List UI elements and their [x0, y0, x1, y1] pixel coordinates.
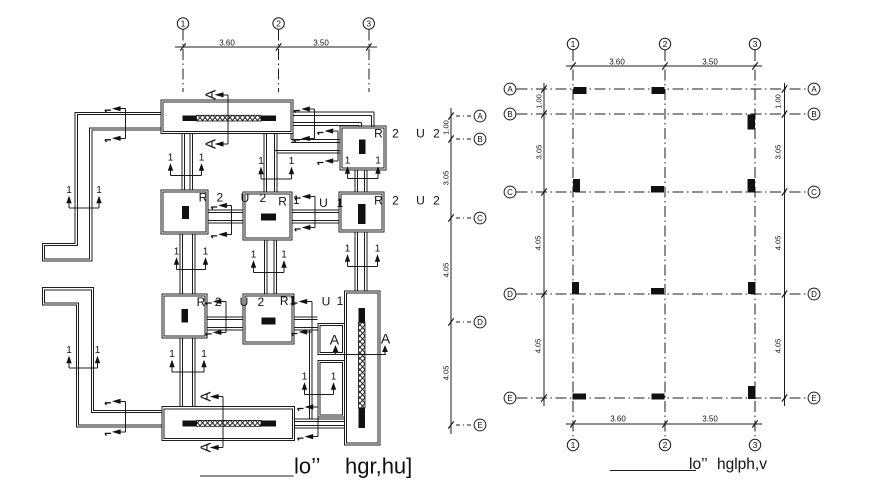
svg-text:D: D	[811, 290, 817, 299]
connector to bubble B (left plan)	[456, 138, 473, 140]
svg-text:D: D	[507, 290, 513, 299]
svg-text:1: 1	[375, 243, 381, 254]
tall strip footing bar with hatch	[359, 308, 366, 323]
svg-text:4.05: 4.05	[442, 263, 451, 278]
grid line D dash-dot (right plan)	[517, 293, 808, 295]
svg-text:1: 1	[258, 156, 264, 167]
connector to bubble D (left plan)	[456, 321, 473, 323]
wall H5 row D between left and center footings	[207, 317, 243, 330]
column in footing row B col 3	[359, 140, 366, 155]
column mark 3-C	[748, 179, 756, 193]
wall H6 row D center footing to A-box	[294, 317, 318, 330]
column in footing row C col 2	[261, 214, 276, 221]
wall H2 strip right edge to top-right footing	[275, 134, 340, 154]
footing R2 row C column 3 (double outline)	[339, 192, 384, 232]
svg-text:2: 2	[663, 39, 668, 49]
section cut 1-1 wall H6	[292, 299, 313, 336]
svg-text:E: E	[507, 394, 512, 403]
strip footing top reinforcement bar with hatch	[183, 115, 197, 121]
row bubble B (left plan)	[474, 133, 486, 145]
svg-text:A: A	[507, 85, 513, 94]
svg-text:3.50: 3.50	[313, 39, 329, 48]
footing R2 row C column 1 (double outline)	[161, 190, 208, 234]
svg-text:2: 2	[433, 127, 440, 141]
wall V8 thin wall left of A-boxes	[310, 330, 313, 419]
svg-text:1: 1	[66, 185, 72, 196]
svg-text:A: A	[811, 85, 817, 94]
svg-text:1: 1	[201, 349, 207, 360]
svg-text:A: A	[381, 331, 391, 347]
svg-text:R: R	[374, 127, 383, 141]
svg-text:1: 1	[96, 185, 102, 196]
svg-text:2: 2	[215, 295, 222, 309]
row bubble C left (right plan)	[504, 186, 516, 198]
svg-text:R: R	[278, 195, 287, 209]
svg-text:3.60: 3.60	[219, 39, 235, 48]
svg-text:2: 2	[217, 191, 224, 205]
row bubble C right (right plan)	[808, 186, 820, 198]
svg-text:2: 2	[663, 440, 668, 450]
grid line 2 dash-dot (left plan)	[278, 30, 280, 92]
wall V7 row D left column to bottom strip footing	[180, 338, 195, 407]
svg-text:1: 1	[95, 345, 101, 356]
svg-text:U: U	[322, 295, 331, 309]
svg-text:3: 3	[366, 19, 371, 29]
svg-text:1: 1	[345, 243, 351, 254]
svg-text:3.60: 3.60	[610, 415, 626, 424]
svg-text:2: 2	[392, 194, 399, 208]
footing R2 row B column 3 (double outline)	[340, 126, 386, 170]
wall V1 below top strip to footing R2 row C	[182, 134, 193, 191]
svg-text:1: 1	[281, 249, 287, 260]
grid line 3 dash-dot (right plan)	[754, 50, 756, 439]
column mark 2-E	[652, 394, 665, 400]
dim tick row C (left plan)	[448, 214, 453, 221]
connector to bubble E (left plan)	[456, 424, 473, 426]
svg-text:D: D	[477, 318, 483, 327]
grid bubble 3 top (right plan)	[749, 38, 760, 49]
grid bubble 2 (left plan)	[273, 18, 284, 29]
column mark 2-D	[651, 288, 664, 295]
top dimension line (left plan)	[175, 46, 377, 48]
section cut 1-1 wall H2	[318, 128, 339, 164]
section cut 1-1 through one-box wall	[302, 371, 337, 394]
svg-text:lo’’: lo’’	[294, 454, 321, 479]
section cut 1-1 upper left wall	[66, 185, 102, 208]
grid bubble 2 bottom (right plan)	[659, 439, 670, 450]
svg-text:1.00: 1.00	[535, 94, 544, 109]
grid bubble 2 top (right plan)	[659, 38, 670, 49]
svg-text:3: 3	[753, 39, 758, 49]
column in footing row D col 2	[262, 318, 276, 325]
svg-text:1: 1	[203, 246, 209, 257]
svg-text:3.50: 3.50	[702, 415, 718, 424]
wall V4 footing row C right to tall strip footing	[355, 232, 367, 291]
section cut 1-1 wall H5	[206, 299, 227, 336]
svg-text:4.05: 4.05	[534, 236, 543, 251]
column mark 1-A	[574, 87, 587, 94]
section cut 1-1 wall V5	[174, 246, 209, 269]
svg-text:1: 1	[168, 152, 174, 163]
svg-text:E: E	[477, 421, 482, 430]
tall strip footing right side (double outline)	[345, 291, 381, 445]
section cut 1-1 wall V6	[251, 249, 288, 272]
section cut 1-1 top-left wall band	[105, 106, 126, 142]
svg-text:C: C	[811, 188, 817, 197]
grid bubble 1 top (right plan)	[567, 38, 578, 49]
column mark 3-D	[748, 282, 756, 294]
svg-text:1: 1	[199, 152, 205, 163]
wall V2 below top strip to footing U2 row C	[264, 134, 277, 193]
svg-text:U: U	[319, 196, 328, 210]
svg-text:lo’’: lo’’	[689, 456, 708, 473]
section cut 1-1 wall H4	[295, 194, 316, 231]
svg-text:R: R	[374, 194, 383, 208]
title underline (right plan)	[610, 470, 696, 472]
column mark 3-E	[748, 386, 756, 399]
section cut 1-1 lower left wall	[66, 345, 101, 368]
svg-text:1: 1	[337, 294, 344, 308]
svg-text:U: U	[240, 295, 249, 309]
svg-text:1: 1	[345, 155, 351, 166]
row bubble A left (right plan)	[504, 83, 516, 95]
svg-text:1: 1	[181, 19, 186, 29]
wall H3 row C between left and center footings	[208, 210, 243, 223]
svg-text:1: 1	[251, 249, 257, 260]
svg-text:1: 1	[302, 371, 308, 382]
dim tick row B (left plan)	[448, 135, 453, 142]
svg-text:1: 1	[174, 246, 180, 257]
svg-text:R: R	[197, 295, 206, 309]
row bubble C (left plan)	[474, 212, 486, 224]
svg-text:1: 1	[375, 155, 381, 166]
section cut 1-1 wall V7	[169, 349, 207, 372]
section A-A through tall strip footing	[330, 331, 391, 355]
svg-text:3: 3	[753, 440, 758, 450]
connector to bubble C (left plan)	[456, 217, 473, 219]
strip footing bottom (double outline)	[162, 407, 295, 441]
svg-text:2: 2	[392, 127, 399, 141]
svg-text:B: B	[507, 110, 512, 119]
svg-text:A: A	[198, 392, 215, 402]
svg-text:1.00: 1.00	[442, 120, 451, 135]
column mark 2-C	[651, 186, 664, 193]
svg-text:E: E	[811, 394, 816, 403]
row bubble E left (right plan)	[504, 392, 516, 404]
row bubble D right (right plan)	[808, 288, 820, 300]
dim tick at grid 2 (left plan)	[276, 43, 281, 50]
row bubble A right (right plan)	[808, 83, 820, 95]
grid bubble 1 (left plan)	[177, 18, 188, 29]
section cut 1-1 wall V2	[258, 156, 295, 179]
svg-text:A: A	[330, 332, 340, 348]
svg-text:R: R	[199, 191, 208, 205]
section arrow A top of top strip	[202, 90, 228, 100]
column mark 1-C	[573, 179, 580, 192]
svg-text:hglph,v: hglph,v	[717, 456, 767, 473]
footing R2 row D column 1 (double outline)	[162, 294, 207, 338]
bottom dimension line (right plan)	[566, 423, 762, 425]
strip footing top (double outline)	[161, 100, 293, 134]
svg-text:2: 2	[276, 19, 281, 29]
svg-text:3.05: 3.05	[442, 171, 451, 186]
svg-text:B: B	[477, 135, 482, 144]
wall V3 between footings row B-C right column	[355, 170, 367, 192]
svg-text:A: A	[198, 442, 215, 452]
grid bubble 1 bottom (right plan)	[567, 439, 578, 450]
dim tick row D (left plan)	[448, 318, 453, 325]
dim tick row E (left plan)	[448, 421, 453, 428]
svg-text:1: 1	[293, 193, 300, 207]
svg-text:C: C	[477, 214, 483, 223]
svg-text:A: A	[202, 139, 219, 149]
section cut 1-1 lower-left wall band	[105, 399, 126, 436]
section cut 1-1 wall H1	[294, 106, 315, 142]
svg-text:1.00: 1.00	[774, 94, 783, 109]
grid bubble 3 bottom (right plan)	[749, 439, 760, 450]
grid line C dash-dot (right plan)	[517, 191, 808, 193]
svg-text:2: 2	[433, 194, 440, 208]
wall H1 top strip to top-right footing with down turn	[293, 112, 374, 127]
svg-text:1: 1	[66, 345, 72, 356]
svg-text:2: 2	[258, 295, 265, 309]
section cut 1-1 wall H7	[298, 404, 319, 440]
column in footing R2 row C col 1	[182, 206, 189, 219]
grid bubble 3 (left plan)	[363, 18, 374, 29]
grid line E dash-dot (right plan)	[517, 397, 808, 399]
left dimension chain (right plan)	[543, 83, 545, 406]
section A-A line through bottom strip footing	[222, 397, 224, 448]
row bubble D left (right plan)	[504, 288, 516, 300]
small box with cut 1 (double outline)	[318, 361, 345, 418]
grid line 1 dash-dot (right plan)	[572, 50, 574, 439]
section arrow A top of bottom strip	[198, 392, 224, 402]
connector to bubble A (left plan)	[456, 115, 473, 117]
svg-text:hgr,hu]: hgr,hu]	[345, 454, 412, 479]
svg-text:U: U	[416, 194, 425, 208]
grid line A dash-dot (right plan)	[517, 88, 808, 90]
grid line 2 dash-dot (right plan)	[664, 50, 666, 439]
wall H4 row C between center and right footings	[292, 210, 339, 223]
column mark 1-E	[573, 394, 587, 400]
wall V6 between row C and row D center column	[265, 240, 277, 294]
small box with A section (double outline)	[318, 324, 345, 355]
svg-text:1: 1	[571, 440, 576, 450]
column mark 1-D	[572, 282, 579, 294]
svg-text:1: 1	[290, 294, 297, 308]
strip footing bottom reinforcement bar with hatch	[183, 420, 197, 426]
row bubble E right (right plan)	[808, 392, 820, 404]
top dimension line (right plan)	[566, 65, 762, 67]
svg-text:3.60: 3.60	[609, 58, 625, 67]
column in footing row C col 3	[358, 204, 366, 224]
svg-text:A: A	[202, 90, 219, 100]
footing U2 row C column 2 (double outline)	[243, 192, 292, 240]
svg-text:4.05: 4.05	[442, 366, 451, 381]
wall V5 between row C and row D left column	[180, 234, 195, 294]
title underline (left plan)	[200, 475, 294, 477]
wall upper-left L-shaped boundary (outer+inset lines)	[43, 112, 162, 261]
svg-text:C: C	[507, 188, 513, 197]
right dimension chain (right plan)	[784, 83, 786, 406]
wall H7 bottom strip footing to tall strip footing	[295, 419, 345, 428]
column mark 3-B	[748, 115, 756, 130]
grid line 3 dash-dot (left plan)	[368, 30, 370, 92]
svg-text:1: 1	[331, 371, 337, 382]
dim tick at grid 1 (left plan)	[180, 43, 185, 50]
dim tick at grid 3 (left plan)	[366, 43, 371, 50]
svg-text:3.50: 3.50	[702, 58, 718, 67]
svg-text:B: B	[811, 110, 816, 119]
footing U2 row D column 2 (double outline)	[243, 294, 294, 344]
svg-text:1: 1	[571, 39, 576, 49]
svg-text:3.05: 3.05	[774, 145, 783, 160]
section cut 1-1 wall V4	[345, 243, 381, 266]
dim tick row A (left plan)	[448, 112, 453, 119]
section arrow A bottom of top strip	[202, 139, 228, 149]
svg-text:A: A	[477, 112, 483, 121]
row bubble B right (right plan)	[808, 108, 820, 120]
svg-text:3.05: 3.05	[535, 145, 544, 160]
section A-A line through top strip footing	[227, 95, 229, 144]
row bubble B left (right plan)	[504, 108, 516, 120]
svg-text:U: U	[241, 191, 250, 205]
svg-text:U: U	[416, 127, 425, 141]
wall lower-left L-shaped boundary (outer+inset lines)	[43, 288, 163, 427]
svg-text:R: R	[280, 294, 289, 308]
row bubble E (left plan)	[474, 419, 486, 431]
grid line B dash-dot (right plan)	[517, 113, 808, 115]
row bubble A (left plan)	[474, 110, 486, 122]
svg-text:1: 1	[336, 196, 343, 210]
section cut 1-1 wall H3	[211, 203, 232, 238]
grid line 1 dash-dot (left plan)	[182, 30, 184, 92]
svg-text:4.05: 4.05	[774, 339, 783, 354]
svg-text:2: 2	[260, 191, 267, 205]
column in footing row D col 1	[182, 309, 189, 323]
column mark 2-A	[652, 87, 665, 94]
svg-text:1: 1	[169, 349, 175, 360]
section cut 1-1 wall V3	[345, 155, 382, 178]
row bubble D (left plan)	[474, 316, 486, 328]
svg-text:4.05: 4.05	[774, 236, 783, 251]
vertical dimension chain line (left plan)	[450, 108, 452, 434]
svg-text:4.05: 4.05	[534, 339, 543, 354]
section cut 1-1 wall V1	[168, 152, 205, 175]
svg-text:1: 1	[289, 156, 295, 167]
section arrow A bottom of bottom strip	[198, 442, 224, 452]
